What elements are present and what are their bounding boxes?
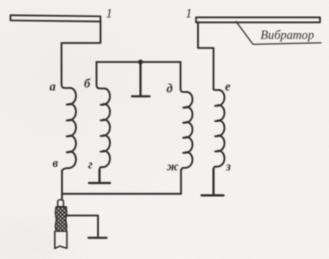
dipole element 1 (right half) [196, 17, 320, 22]
center-tap line б–д [97, 61, 181, 63]
leader line to label [236, 22, 321, 45]
wire from right element to coil е [198, 22, 214, 89]
ground (under г) [89, 170, 110, 184]
feed line (в-to-ж bottom bus) [62, 193, 181, 195]
ground (coax shield) [89, 237, 107, 239]
coax connector: center pin [58, 200, 64, 207]
ground (center tap) [132, 62, 150, 96]
dipole element 1 (left half) [10, 15, 100, 21]
wire braid to ground [67, 216, 99, 237]
node (junction dot) [138, 60, 143, 65]
coax cable body with torn end [55, 231, 67, 248]
coil L4 (е–з) [214, 89, 225, 169]
coil L2 (б–г) [97, 62, 110, 170]
wire from left element to coil a [62, 21, 101, 84]
coil L1 (а–в) [62, 84, 76, 171]
coax connector: braid (hatched) [55, 207, 67, 231]
ground (under з) [202, 169, 224, 195]
coil L3 (д–ж) [181, 62, 193, 171]
wire coil в to feed line and coax pin [61, 171, 63, 201]
wire ж down to feed line [180, 171, 182, 194]
